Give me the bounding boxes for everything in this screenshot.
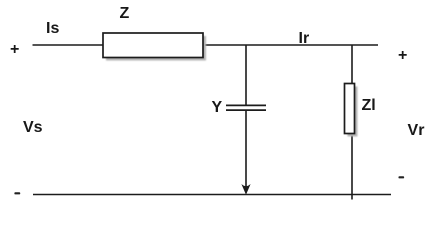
capacitor Y bottom plate <box>226 110 268 113</box>
wire shunt branch lower segment <box>246 111 249 195</box>
svg-text:Zl: Zl <box>362 97 376 114</box>
impedance Z (series box) <box>103 33 206 61</box>
arrowhead to return conductor (ground reference) <box>241 184 250 195</box>
wire load branch upper segment <box>352 45 355 86</box>
svg-text:Z: Z <box>120 5 130 22</box>
wire load branch lower segment <box>352 133 355 202</box>
svg-text:+: + <box>398 47 407 64</box>
svg-text:Ir: Ir <box>299 30 310 47</box>
terminal - (receiving negative) <box>399 176 405 178</box>
svg-text:Vr: Vr <box>408 122 426 139</box>
svg-text:+: + <box>10 41 19 58</box>
wire bottom return conductor <box>33 195 393 198</box>
terminal - (sending negative) <box>14 192 20 194</box>
impedance Zl (load box) <box>345 84 358 137</box>
svg-text:Y: Y <box>212 99 223 116</box>
svg-text:Is: Is <box>46 20 59 37</box>
svg-text:Vs: Vs <box>23 119 43 136</box>
wire top conductor (node Is to node Ir) <box>33 45 381 48</box>
capacitor Y top plate <box>226 105 268 108</box>
wire shunt branch upper segment <box>246 45 249 107</box>
